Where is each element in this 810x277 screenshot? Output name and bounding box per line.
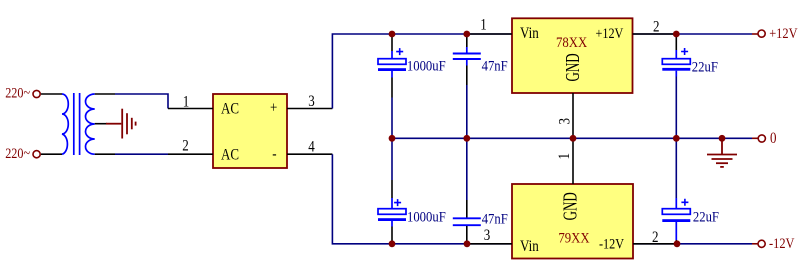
wire C1 to 0V rail bbox=[391, 98, 393, 139]
pin 3 of U3 (Vin) bbox=[467, 227, 512, 244]
pin 2 of U2 bbox=[633, 18, 677, 35]
junction bottom rail at C6 bbox=[674, 240, 681, 247]
pin 1 of U1 bbox=[168, 94, 213, 111]
pin 2 of U1 bbox=[168, 138, 213, 155]
svg-text:GND: GND bbox=[559, 192, 582, 220]
wire C2 to 0V rail bbox=[466, 85, 468, 138]
wire middle 0V rail bbox=[392, 137, 752, 139]
primary winding bbox=[62, 94, 68, 154]
U2 designator 78XX bbox=[556, 35, 587, 51]
pin 2 of U3 (-12V out) bbox=[633, 229, 677, 246]
svg-text:Vin: Vin bbox=[520, 25, 539, 42]
junction bottom rail at C4 bbox=[389, 240, 396, 247]
junction top rail at C1 bbox=[389, 31, 396, 38]
svg-text:22uF: 22uF bbox=[692, 59, 718, 75]
svg-text:-: - bbox=[272, 145, 277, 162]
earth ground E1 at transformer center tap bbox=[106, 109, 136, 139]
wire C3 to 0V rail bbox=[675, 77, 677, 139]
svg-text:220~: 220~ bbox=[5, 85, 30, 101]
svg-text:220~: 220~ bbox=[5, 145, 30, 161]
svg-text:1: 1 bbox=[480, 17, 487, 34]
terminal 0 bbox=[752, 130, 777, 147]
pin 1 of U3 (GND) bbox=[556, 138, 574, 184]
pin lead primary top bbox=[41, 93, 62, 95]
capacitor C4 1000uF bottom bbox=[378, 138, 446, 244]
junction bottom rail at C5 bbox=[464, 240, 471, 247]
junction 0V rail at C5 bbox=[463, 135, 470, 142]
capacitor C6 22uF bottom bbox=[662, 138, 719, 244]
svg-text:Vin: Vin bbox=[520, 238, 539, 255]
svg-text:1: 1 bbox=[183, 94, 190, 111]
pin 3 of U2 (GND) bbox=[556, 93, 574, 138]
pin lead secondary bottom bbox=[95, 153, 115, 155]
U3 designator 79XX bbox=[558, 231, 589, 247]
transformer T1 bbox=[41, 93, 115, 155]
bridge U1 label minus bbox=[272, 145, 277, 162]
svg-text:+12V: +12V bbox=[596, 25, 624, 41]
svg-text:47nF: 47nF bbox=[482, 212, 508, 228]
svg-text:1: 1 bbox=[556, 153, 574, 160]
bridge U1 label plus bbox=[270, 100, 277, 117]
junction 0V rail at C6 bbox=[673, 135, 680, 142]
wire pin3 up to +rail and top rail bbox=[332, 34, 752, 109]
svg-text:22uF: 22uF bbox=[693, 209, 719, 225]
U2 label +12V bbox=[596, 25, 624, 41]
U3 label -12V bbox=[599, 235, 624, 251]
junction 0V rail at earth E2 bbox=[719, 135, 726, 142]
pin 3 of U1 bbox=[287, 93, 332, 110]
terminal P1 220~ top bbox=[5, 85, 40, 101]
pin 1 of U2 bbox=[467, 17, 512, 34]
svg-text:+12V: +12V bbox=[769, 25, 798, 41]
svg-text:79XX: 79XX bbox=[558, 231, 589, 247]
wire secondary top to bridge pin1 bbox=[115, 94, 168, 109]
earth ground E2 on 0V rail bbox=[707, 138, 737, 167]
svg-text:-12V: -12V bbox=[769, 235, 795, 251]
regulator U2 78XX body bbox=[512, 18, 633, 93]
pin lead primary bottom bbox=[41, 153, 62, 155]
svg-text:1000uF: 1000uF bbox=[407, 209, 446, 225]
bridge rectifier U1 body bbox=[213, 94, 287, 168]
capacitor C5 47nF bottom bbox=[453, 138, 508, 244]
svg-text:4: 4 bbox=[308, 138, 315, 155]
svg-text:2: 2 bbox=[653, 18, 660, 35]
pin 4 of U1 bbox=[287, 138, 332, 155]
junction top rail at C2 bbox=[463, 31, 470, 38]
svg-text:2: 2 bbox=[652, 229, 659, 246]
svg-text:AC: AC bbox=[221, 147, 239, 164]
capacitor C3 22uF top bbox=[662, 34, 718, 77]
terminal +12V bbox=[752, 25, 798, 41]
junction 0V rail at GND pins bbox=[570, 135, 577, 142]
wire secondary bottom to bridge pin2 bbox=[115, 153, 168, 155]
U2 label Vin bbox=[520, 25, 539, 42]
svg-text:-12V: -12V bbox=[599, 235, 624, 251]
pin lead center tap bbox=[95, 123, 107, 125]
svg-text:+: + bbox=[270, 100, 277, 117]
regulator U3 79XX body bbox=[512, 184, 633, 259]
svg-text:47nF: 47nF bbox=[482, 59, 508, 75]
core bbox=[73, 93, 75, 155]
bridge U1 label AC top bbox=[221, 101, 239, 118]
wire pin4 down to -rail and bottom rail bbox=[332, 154, 752, 244]
svg-text:78XX: 78XX bbox=[556, 35, 587, 51]
junction top rail at C3 bbox=[673, 31, 680, 38]
svg-text:2: 2 bbox=[182, 138, 189, 155]
terminal P2 220~ bottom bbox=[5, 145, 40, 161]
pin lead secondary top bbox=[95, 93, 115, 95]
svg-text:3: 3 bbox=[484, 227, 491, 244]
svg-text:0: 0 bbox=[770, 130, 777, 147]
bridge U1 label AC bottom bbox=[221, 147, 239, 164]
svg-text:1000uF: 1000uF bbox=[407, 59, 446, 75]
capacitor C2 47nF top bbox=[453, 34, 508, 85]
U3 label Vin bbox=[520, 238, 539, 255]
svg-text:GND: GND bbox=[561, 53, 584, 81]
svg-text:3: 3 bbox=[556, 118, 574, 125]
terminal -12V bbox=[752, 235, 795, 251]
capacitor C1 1000uF top bbox=[378, 34, 446, 98]
junction 0V rail at C4 bbox=[389, 135, 396, 142]
svg-text:3: 3 bbox=[308, 93, 315, 110]
svg-text:AC: AC bbox=[221, 101, 239, 118]
secondary winding bbox=[85, 94, 94, 154]
